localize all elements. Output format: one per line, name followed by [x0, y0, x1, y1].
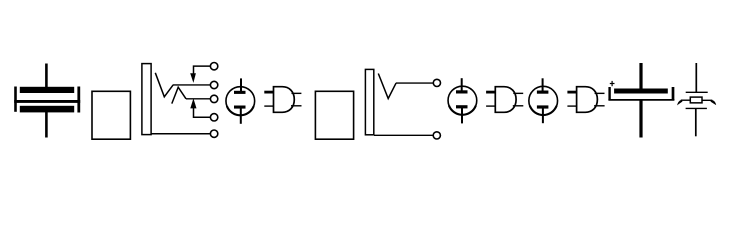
plate (top plate C1) — [20, 87, 74, 93]
gate body G2 — [495, 87, 516, 113]
envelope V3 — [529, 86, 558, 115]
envelope V1 — [226, 87, 255, 116]
plate (negative electrode bottom C2) — [608, 99, 674, 101]
jack J2 (2-terminal phone jack) — [365, 69, 440, 139]
wire (top lead V2) — [461, 78, 463, 91]
electrode (middle bar C1) — [14, 100, 80, 103]
tube V3 (vacuum tube diode) — [529, 78, 558, 123]
node 4 (terminal circle) — [210, 114, 217, 121]
wire (bottom lead V2) — [461, 107, 463, 124]
pin (input B G1) — [264, 105, 274, 107]
wire (node 4 branch J1) — [194, 108, 211, 117]
plate (bottom plate Y1) — [686, 107, 707, 109]
electrode (left end tick C1) — [14, 87, 17, 112]
wire (bottom lead Y1) — [695, 108, 697, 136]
wire (tip line J1 to node 2) — [173, 84, 210, 86]
wire (bottom lead C2) — [639, 100, 642, 138]
node (sleeve terminal circle J2) — [433, 132, 440, 139]
pin (output top G1) — [292, 92, 302, 94]
pin (input A G2) — [486, 91, 495, 94]
plate (top plate Y1) — [686, 91, 708, 93]
pin (input B G2) — [486, 105, 496, 107]
jack J1 (5-terminal phone jack with switch contacts) — [142, 62, 218, 137]
box U2 (rectangular component outline) — [315, 91, 353, 139]
anode plate V2 — [456, 90, 468, 93]
node 1 (terminal circle) — [210, 62, 217, 69]
wire (top lead C2) — [639, 63, 642, 90]
contact (tip spring J2) — [378, 74, 396, 99]
wire (top lead Y1) — [695, 63, 697, 92]
pin (input A G3) — [567, 91, 576, 94]
capacitor C1 (feedthrough capacitor symbol) — [14, 64, 80, 138]
plate (positive plate C2) — [614, 89, 668, 94]
label + (polarity mark C2) — [610, 83, 615, 85]
wire (top lead V3) — [542, 78, 544, 91]
wire (right bent lead tip Y1) — [711, 100, 717, 105]
gate body G1 — [274, 87, 295, 113]
gate G1 (AND gate) — [264, 87, 301, 113]
arrow (normally-closed contact, up) — [190, 98, 196, 108]
anode plate V3 — [537, 91, 549, 94]
gate G2 (AND gate) — [486, 87, 523, 113]
pin (input B G3) — [567, 105, 577, 107]
node 5 (terminal circle) — [210, 130, 217, 137]
cathode plate V2 — [456, 105, 468, 108]
tube V1 (vacuum tube diode) — [226, 78, 255, 123]
tube V2 (vacuum tube diode) — [448, 78, 477, 123]
plate (negative electrode right wall C2) — [672, 87, 675, 100]
jack body J1 — [142, 64, 151, 135]
node 3 (terminal circle) — [210, 95, 217, 102]
wire (ring line J1 to node 3) — [186, 98, 210, 100]
cathode plate V3 — [537, 105, 549, 108]
anode plate V1 — [234, 91, 246, 94]
pin (input A G1) — [264, 91, 273, 94]
contact (ring spring J1) — [172, 87, 186, 103]
capacitor C2 (polarized electrolytic capacitor) — [608, 63, 674, 138]
wire (top lead C1) — [45, 64, 48, 91]
cathode plate V1 — [234, 106, 246, 109]
arrow (normally-closed contact, down) — [190, 73, 196, 83]
wire (sleeve line J2) — [374, 134, 433, 136]
pin (output bottom G1) — [291, 105, 302, 107]
contact (tip spring J1) — [155, 73, 173, 97]
wire (left bent lead tip Y1) — [677, 100, 682, 106]
crystal Y1 (resonator with plates) — [677, 63, 716, 136]
wire (tip line J2) — [396, 82, 433, 84]
wire (sleeve line J1 to node 5) — [151, 133, 210, 135]
wire (bottom lead C1) — [45, 112, 48, 138]
wire (bottom lead V1) — [240, 107, 242, 124]
crystal element Y1 — [690, 97, 702, 103]
box U1 (rectangular component outline) — [92, 91, 130, 139]
wire (top lead V1) — [240, 78, 242, 92]
electrode (right end tick C1) — [77, 87, 80, 113]
wire (left lead Y1) — [681, 99, 690, 101]
pin (output top G3) — [595, 92, 605, 94]
pin (output bottom G2) — [513, 105, 524, 107]
node 2 (terminal circle) — [210, 81, 217, 88]
plate (negative electrode left wall C2) — [608, 87, 610, 100]
plate (bottom plate C1) — [20, 106, 74, 113]
wire (node 1 branch J1) — [194, 66, 211, 74]
pin (output bottom G3) — [594, 105, 605, 107]
gate G3 (AND gate) — [567, 87, 604, 113]
pin (output top G2) — [513, 92, 523, 94]
envelope V2 — [448, 86, 477, 115]
jack body J2 — [365, 69, 373, 134]
gate body G3 — [577, 87, 598, 113]
node (tip terminal circle J2) — [433, 79, 440, 86]
wire (right lead Y1) — [703, 99, 713, 101]
wire (bottom lead V3) — [542, 107, 544, 123]
